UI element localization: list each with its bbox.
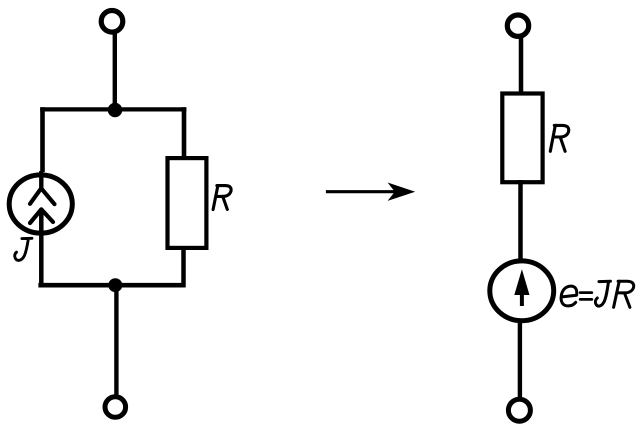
wire bottom horizontal rail <box>38 283 185 288</box>
current source chevron 2 <box>30 209 53 223</box>
label R (right) <box>550 125 568 151</box>
current source J (circle) <box>9 175 72 233</box>
terminal T3 (right circuit, top) <box>507 15 528 36</box>
wire resistor R2 to source E <box>518 180 523 259</box>
transformation arrow <box>326 190 397 193</box>
voltage source arrow head <box>514 269 529 295</box>
wire top horizontal rail <box>40 107 186 111</box>
wire current source shaft down to bottom rail <box>39 209 44 287</box>
label R (left) <box>213 186 231 210</box>
node B (bottom junction dot) <box>108 278 122 292</box>
voltage source E (circle) <box>490 261 554 321</box>
wire T3 to resistor R2 <box>519 37 524 96</box>
wire right branch down to resistor R1 <box>182 107 187 160</box>
label e=JR <box>561 281 634 307</box>
wire left branch down into current source <box>40 107 45 172</box>
resistor R1 <box>168 158 207 248</box>
current source chevron 1 <box>30 188 55 204</box>
wire node B to terminal T2 <box>114 285 118 395</box>
terminal T4 (right circuit, bottom) <box>508 399 530 421</box>
wire current source top shaft <box>39 171 43 188</box>
wire source E to terminal T4 <box>518 322 522 398</box>
wire T1 to node A <box>113 34 117 109</box>
resistor R2 <box>502 94 542 183</box>
label J <box>15 238 32 260</box>
wire resistor R1 bottom <box>181 246 186 287</box>
voltage source arrow shaft <box>520 288 524 306</box>
terminal T1 (left circuit, top) <box>101 10 123 32</box>
terminal T2 (left circuit, bottom) <box>105 397 126 418</box>
node A (top junction dot) <box>108 103 123 118</box>
